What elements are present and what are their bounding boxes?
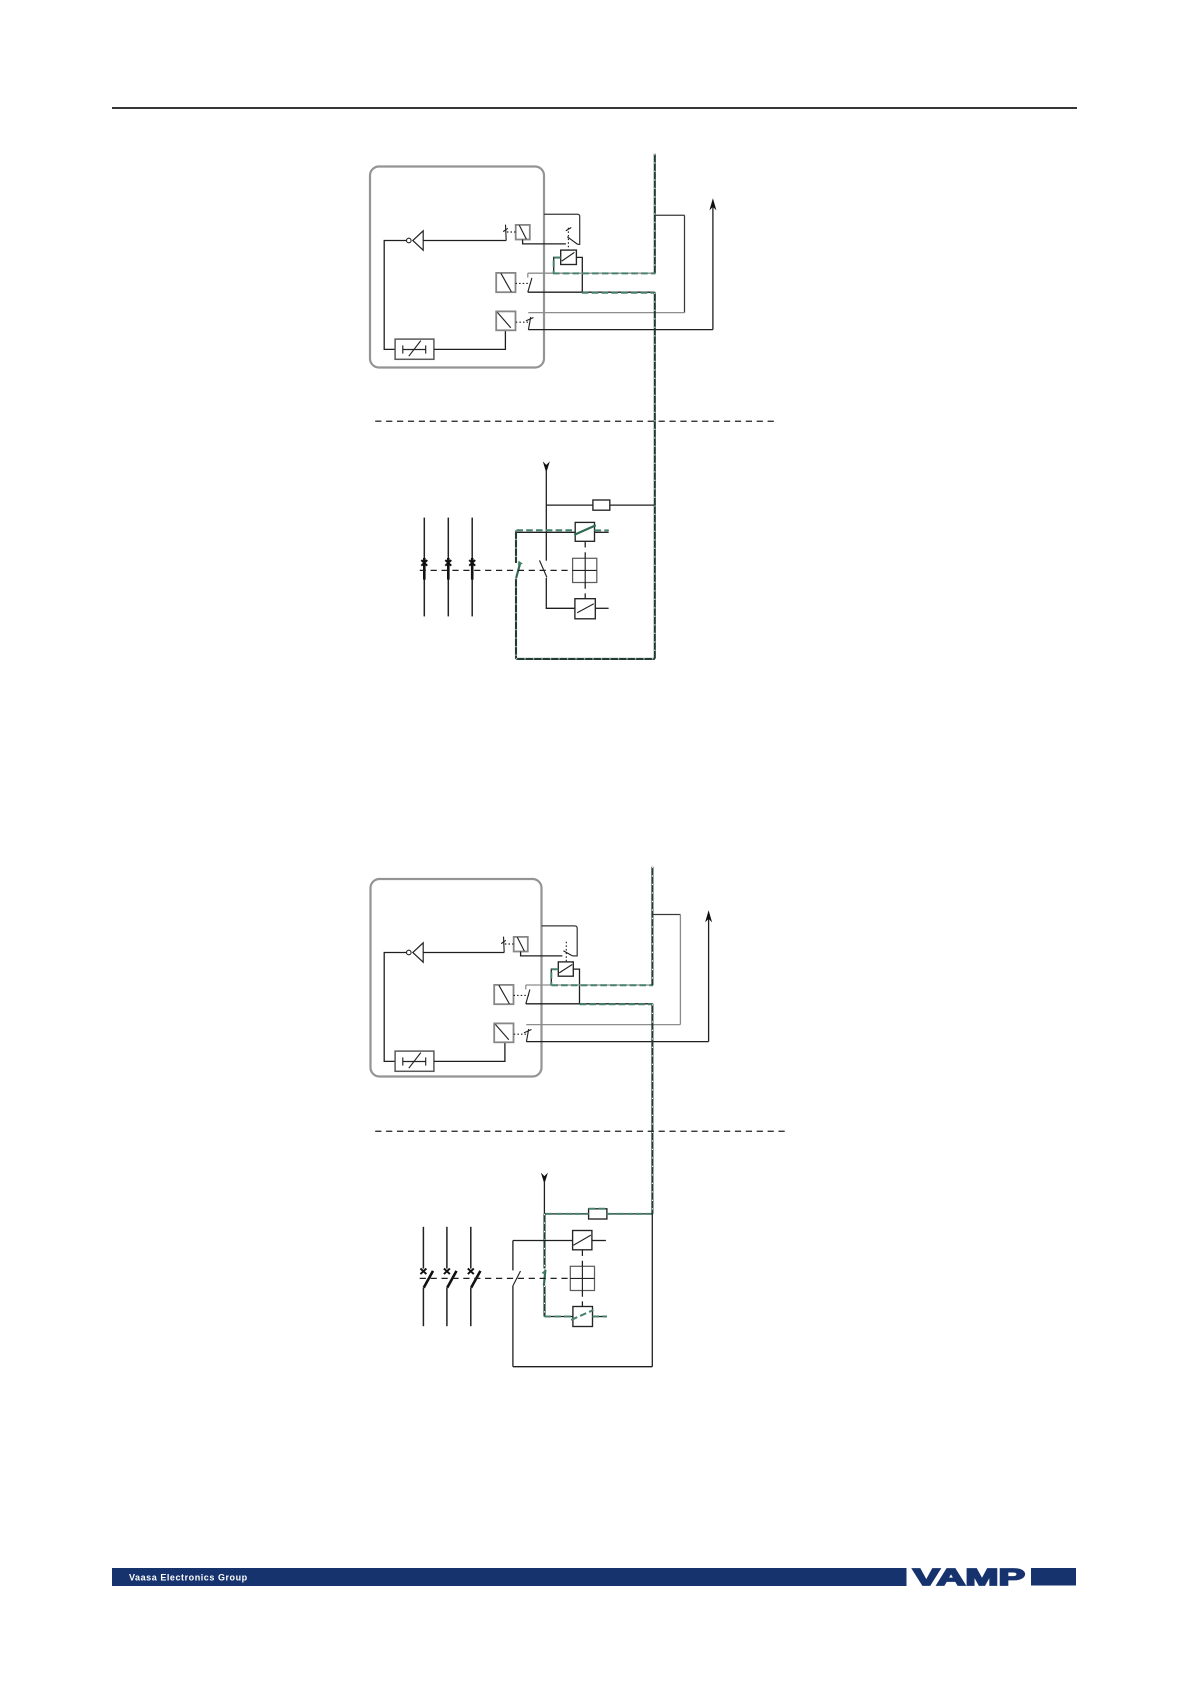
busbar L1 b lower <box>422 1288 424 1326</box>
trip coil T1b diagonal <box>559 965 572 973</box>
contact K1 tick <box>503 228 508 231</box>
footer bar <box>112 1568 907 1586</box>
fuse F1b <box>589 1209 607 1219</box>
coil K2 diagonal <box>501 273 512 292</box>
green highlight main wire upper b <box>651 867 653 985</box>
wire T1b right jog <box>573 969 579 1004</box>
CB aux contact block b <box>573 1231 592 1250</box>
relay coil K1 <box>516 225 530 240</box>
coil K1 diagonal <box>519 225 526 239</box>
dashed boundary line (diagram 1) <box>375 420 778 422</box>
feedback wire to contact K3b (gray) <box>526 1024 680 1026</box>
wire lower detour <box>528 291 655 293</box>
green highlight main wire upper <box>654 154 656 273</box>
signal arrow up shaft <box>712 207 714 330</box>
contact K2 stub <box>527 273 529 277</box>
CB main contact lower wire <box>546 578 575 608</box>
trip relay contact tick <box>566 228 572 231</box>
feedback wire vertical b (gray) <box>679 915 681 1025</box>
close command arrow head (down) <box>543 461 550 472</box>
wire inverter output to latch b <box>384 953 406 1062</box>
feedback wire to contact K3 (gray) <box>528 312 684 314</box>
footer right block <box>1031 1568 1076 1586</box>
wire K1 coil to external contact <box>523 240 566 244</box>
green highlight aux wire left <box>516 529 575 531</box>
CB aux lever b (open) <box>513 1271 521 1286</box>
top rule <box>112 107 1077 109</box>
svg-text:VAMP: VAMP <box>913 1564 1025 1590</box>
trip relay contact dotted link <box>567 228 569 250</box>
mechanism cross vertical <box>584 558 586 582</box>
contact K2b lever <box>526 990 530 1004</box>
contact K3 lever <box>528 317 530 330</box>
contact K2 lever <box>528 278 532 292</box>
wire upper detour (gray) <box>528 272 655 274</box>
main trip wire lower segment <box>654 292 656 659</box>
trip relay coil T1 <box>561 250 577 264</box>
green highlight lower detour b <box>580 1003 654 1005</box>
dotted link K2 <box>516 282 532 284</box>
coil K1b diagonal <box>517 937 524 951</box>
green highlight fuse top edge <box>589 1208 607 1210</box>
wire T1 left jog <box>554 257 561 273</box>
busbar L2 closed lever <box>447 558 450 580</box>
trip relay contact lever b <box>563 951 572 956</box>
inverter output bubble <box>407 238 412 243</box>
wire upper detour b (gray) <box>526 984 653 986</box>
CB left side upper b <box>512 1241 514 1271</box>
CB left side lower b <box>512 1286 514 1367</box>
svg-text:Vaasa Electronics Group: Vaasa Electronics Group <box>129 1573 248 1583</box>
mechanism linkage dashed lower <box>584 583 586 599</box>
dotted link K1 <box>507 231 516 233</box>
mechanism linkage dashed upper b <box>581 1250 583 1267</box>
close command arrow head b (down) <box>541 1173 548 1184</box>
wire loop from enclosure to trip contact b <box>542 926 578 956</box>
busbar L1 b open lever <box>424 1271 433 1288</box>
supply wire with fuse b <box>544 1213 652 1215</box>
busbar L1 closed lever <box>423 558 426 580</box>
signal arrow head b <box>705 910 712 922</box>
coil K2b diagonal <box>499 985 510 1004</box>
feedback wire vertical <box>684 215 686 312</box>
dotted link K1b <box>505 943 514 945</box>
mechanism cross horizontal <box>573 569 597 571</box>
relay coil K2b <box>494 985 513 1004</box>
CB main contact lever b (green closed) <box>544 1270 546 1286</box>
busbar L2 cross mark <box>445 560 451 566</box>
inverter gate U1b <box>413 943 423 962</box>
contact K3b lever <box>526 1029 528 1042</box>
CB aux contact block <box>575 522 594 541</box>
latch / lockout block b <box>395 1051 434 1071</box>
contact K2b stub <box>525 985 527 989</box>
trip coil right stub b <box>593 1316 607 1318</box>
busbar L1 cross mark <box>421 560 427 566</box>
latch / lockout block <box>395 339 434 359</box>
relay coil K2 <box>496 273 515 292</box>
mechanical linkage dashed to busbars <box>420 569 573 571</box>
mechanism cross horizontal b <box>570 1277 594 1279</box>
dotted link K3 <box>516 321 528 323</box>
CB aux diagonal b <box>573 1235 591 1245</box>
wire inverter output to latch <box>384 241 406 350</box>
relay coil K3 <box>496 311 515 330</box>
latch symbol <box>403 341 426 357</box>
busbar L2 b open lever <box>447 1271 456 1288</box>
wire inverter input from contact K1 <box>423 240 506 242</box>
contact K3 tick <box>526 318 534 321</box>
relay coil K3b <box>494 1023 513 1042</box>
close command wire b <box>543 1181 545 1214</box>
green highlight trip coil wire b <box>544 1316 573 1318</box>
CB trip loop left side lower <box>515 578 517 659</box>
CB aux contact wire b <box>513 1240 573 1242</box>
mechanism linkage dashed upper <box>584 541 586 558</box>
trip coil block <box>575 599 595 619</box>
busbar L2 b cross mark <box>444 1269 450 1275</box>
busbar L3 b lower <box>470 1288 472 1326</box>
CB main line lower b <box>543 1286 545 1317</box>
wire inverter input from contact K1b <box>423 952 504 954</box>
mechanical linkage dashed to busbars b <box>420 1277 571 1279</box>
wire contact K3 to signal arrow <box>528 329 713 331</box>
dotted link K2b <box>514 994 530 996</box>
coil K3 diagonal <box>497 312 510 327</box>
green highlight main wire lower <box>654 293 656 659</box>
CB aux right stub <box>595 531 609 533</box>
contact K1b tick <box>501 940 506 943</box>
busbar phase L1 b upper <box>422 1227 424 1269</box>
coil K3b diagonal <box>495 1024 508 1039</box>
CB operating mechanism block <box>573 558 597 582</box>
CB aux right stub b <box>592 1240 606 1242</box>
busbar phase L3 b upper <box>470 1227 472 1269</box>
trip coil T1 diagonal <box>562 252 575 261</box>
busbar L1 b cross mark <box>420 1269 426 1275</box>
inverter output bubble b <box>407 950 412 955</box>
busbar phase L2 b upper <box>446 1227 448 1269</box>
CB trip loop aux lever (closed) <box>516 562 520 578</box>
signal arrow up shaft b <box>708 919 710 1042</box>
wire K1b coil to external contact <box>521 952 563 956</box>
green highlight aux diagonal <box>574 525 596 535</box>
green highlight main line lower b <box>543 1286 545 1317</box>
trip relay coil T1b <box>558 962 573 976</box>
wire latch to relay coil K3 <box>434 330 506 349</box>
busbar L3 closed lever <box>471 558 474 580</box>
trip relay contact lever <box>567 237 577 245</box>
feedback wire top stub <box>655 214 685 216</box>
CB enclosure right side b <box>651 1214 653 1367</box>
busbar L3 cross mark <box>469 560 475 566</box>
CB main line upper b <box>543 1214 545 1269</box>
green highlight bottom <box>516 658 655 660</box>
green highlight left side lower <box>515 578 517 659</box>
green highlight aux lever <box>516 562 520 578</box>
green lever arrow b <box>542 1269 546 1274</box>
green highlight aux right stub <box>595 529 609 531</box>
contact K1 lever <box>505 225 508 241</box>
green highlight main wire mid b <box>651 1004 653 1214</box>
relay unit enclosure box (diagram 2) <box>371 879 542 1077</box>
green highlight T1 left jog <box>554 258 561 274</box>
mechanism linkage dashed lower b <box>581 1291 583 1307</box>
trip coil wire b <box>544 1316 573 1318</box>
busbar L3 b open lever <box>471 1271 480 1288</box>
CB main contact lever (open) <box>540 560 547 577</box>
wire lower detour b <box>526 1003 653 1005</box>
inverter gate U1 <box>413 231 423 250</box>
trip coil diagonal b (green) <box>571 1310 593 1320</box>
busbar phase L2 <box>447 518 449 617</box>
green highlight lower detour <box>582 292 656 294</box>
main trip wire upper segment b <box>651 867 653 985</box>
busbar phase L1 <box>423 518 425 617</box>
trip coil diagonal <box>577 604 594 613</box>
green highlight lever arrow <box>518 561 523 566</box>
green highlight upper detour <box>553 272 656 274</box>
wire latch to relay coil K3b <box>434 1042 505 1061</box>
relay coil K1b <box>514 937 528 952</box>
fuse F1 <box>593 500 610 510</box>
green highlight fuse wire left <box>546 1213 589 1215</box>
green highlight fuse wire right <box>607 1213 651 1215</box>
signal arrow head <box>709 198 716 210</box>
dotted link K3b <box>514 1033 526 1035</box>
green highlight left side upper <box>515 530 517 563</box>
contact K3b tick <box>524 1030 532 1033</box>
contact K1b lever <box>503 937 506 953</box>
green highlight trip coil stub b <box>593 1316 607 1318</box>
mechanism cross vertical b <box>581 1266 583 1290</box>
wire loop from enclosure to trip contact <box>544 214 580 244</box>
feedback wire top stub b <box>652 914 680 916</box>
CB operating mechanism block b <box>570 1266 594 1290</box>
wire T1 right jog <box>576 257 582 292</box>
wire T1b left jog <box>551 969 558 985</box>
trip coil block b <box>573 1307 593 1327</box>
dashed boundary line (diagram 2) <box>375 1130 786 1132</box>
CB trip loop left side upper <box>515 530 517 563</box>
wire contact K3b to signal arrow <box>526 1041 708 1043</box>
green highlight main line upper b <box>543 1214 545 1269</box>
busbar phase L3 <box>471 518 473 617</box>
relay unit enclosure box (diagram 1) <box>370 167 544 368</box>
latch symbol b <box>403 1053 426 1069</box>
green highlight upper detour b <box>551 984 653 986</box>
trip coil right stub <box>595 607 608 609</box>
CB aux contact wire <box>516 531 575 533</box>
CB bottom b <box>513 1366 652 1368</box>
main trip wire upper segment <box>654 154 656 273</box>
busbar L2 b lower <box>446 1288 448 1326</box>
main trip wire mid segment b <box>651 1004 653 1214</box>
green highlight T1b left jog <box>551 969 558 985</box>
CB trip loop bottom <box>516 658 655 660</box>
trip relay contact dotted link b <box>565 942 567 962</box>
close command wire <box>545 470 547 561</box>
supply wire with fuse <box>546 504 654 506</box>
busbar L3 b cross mark <box>468 1269 474 1275</box>
